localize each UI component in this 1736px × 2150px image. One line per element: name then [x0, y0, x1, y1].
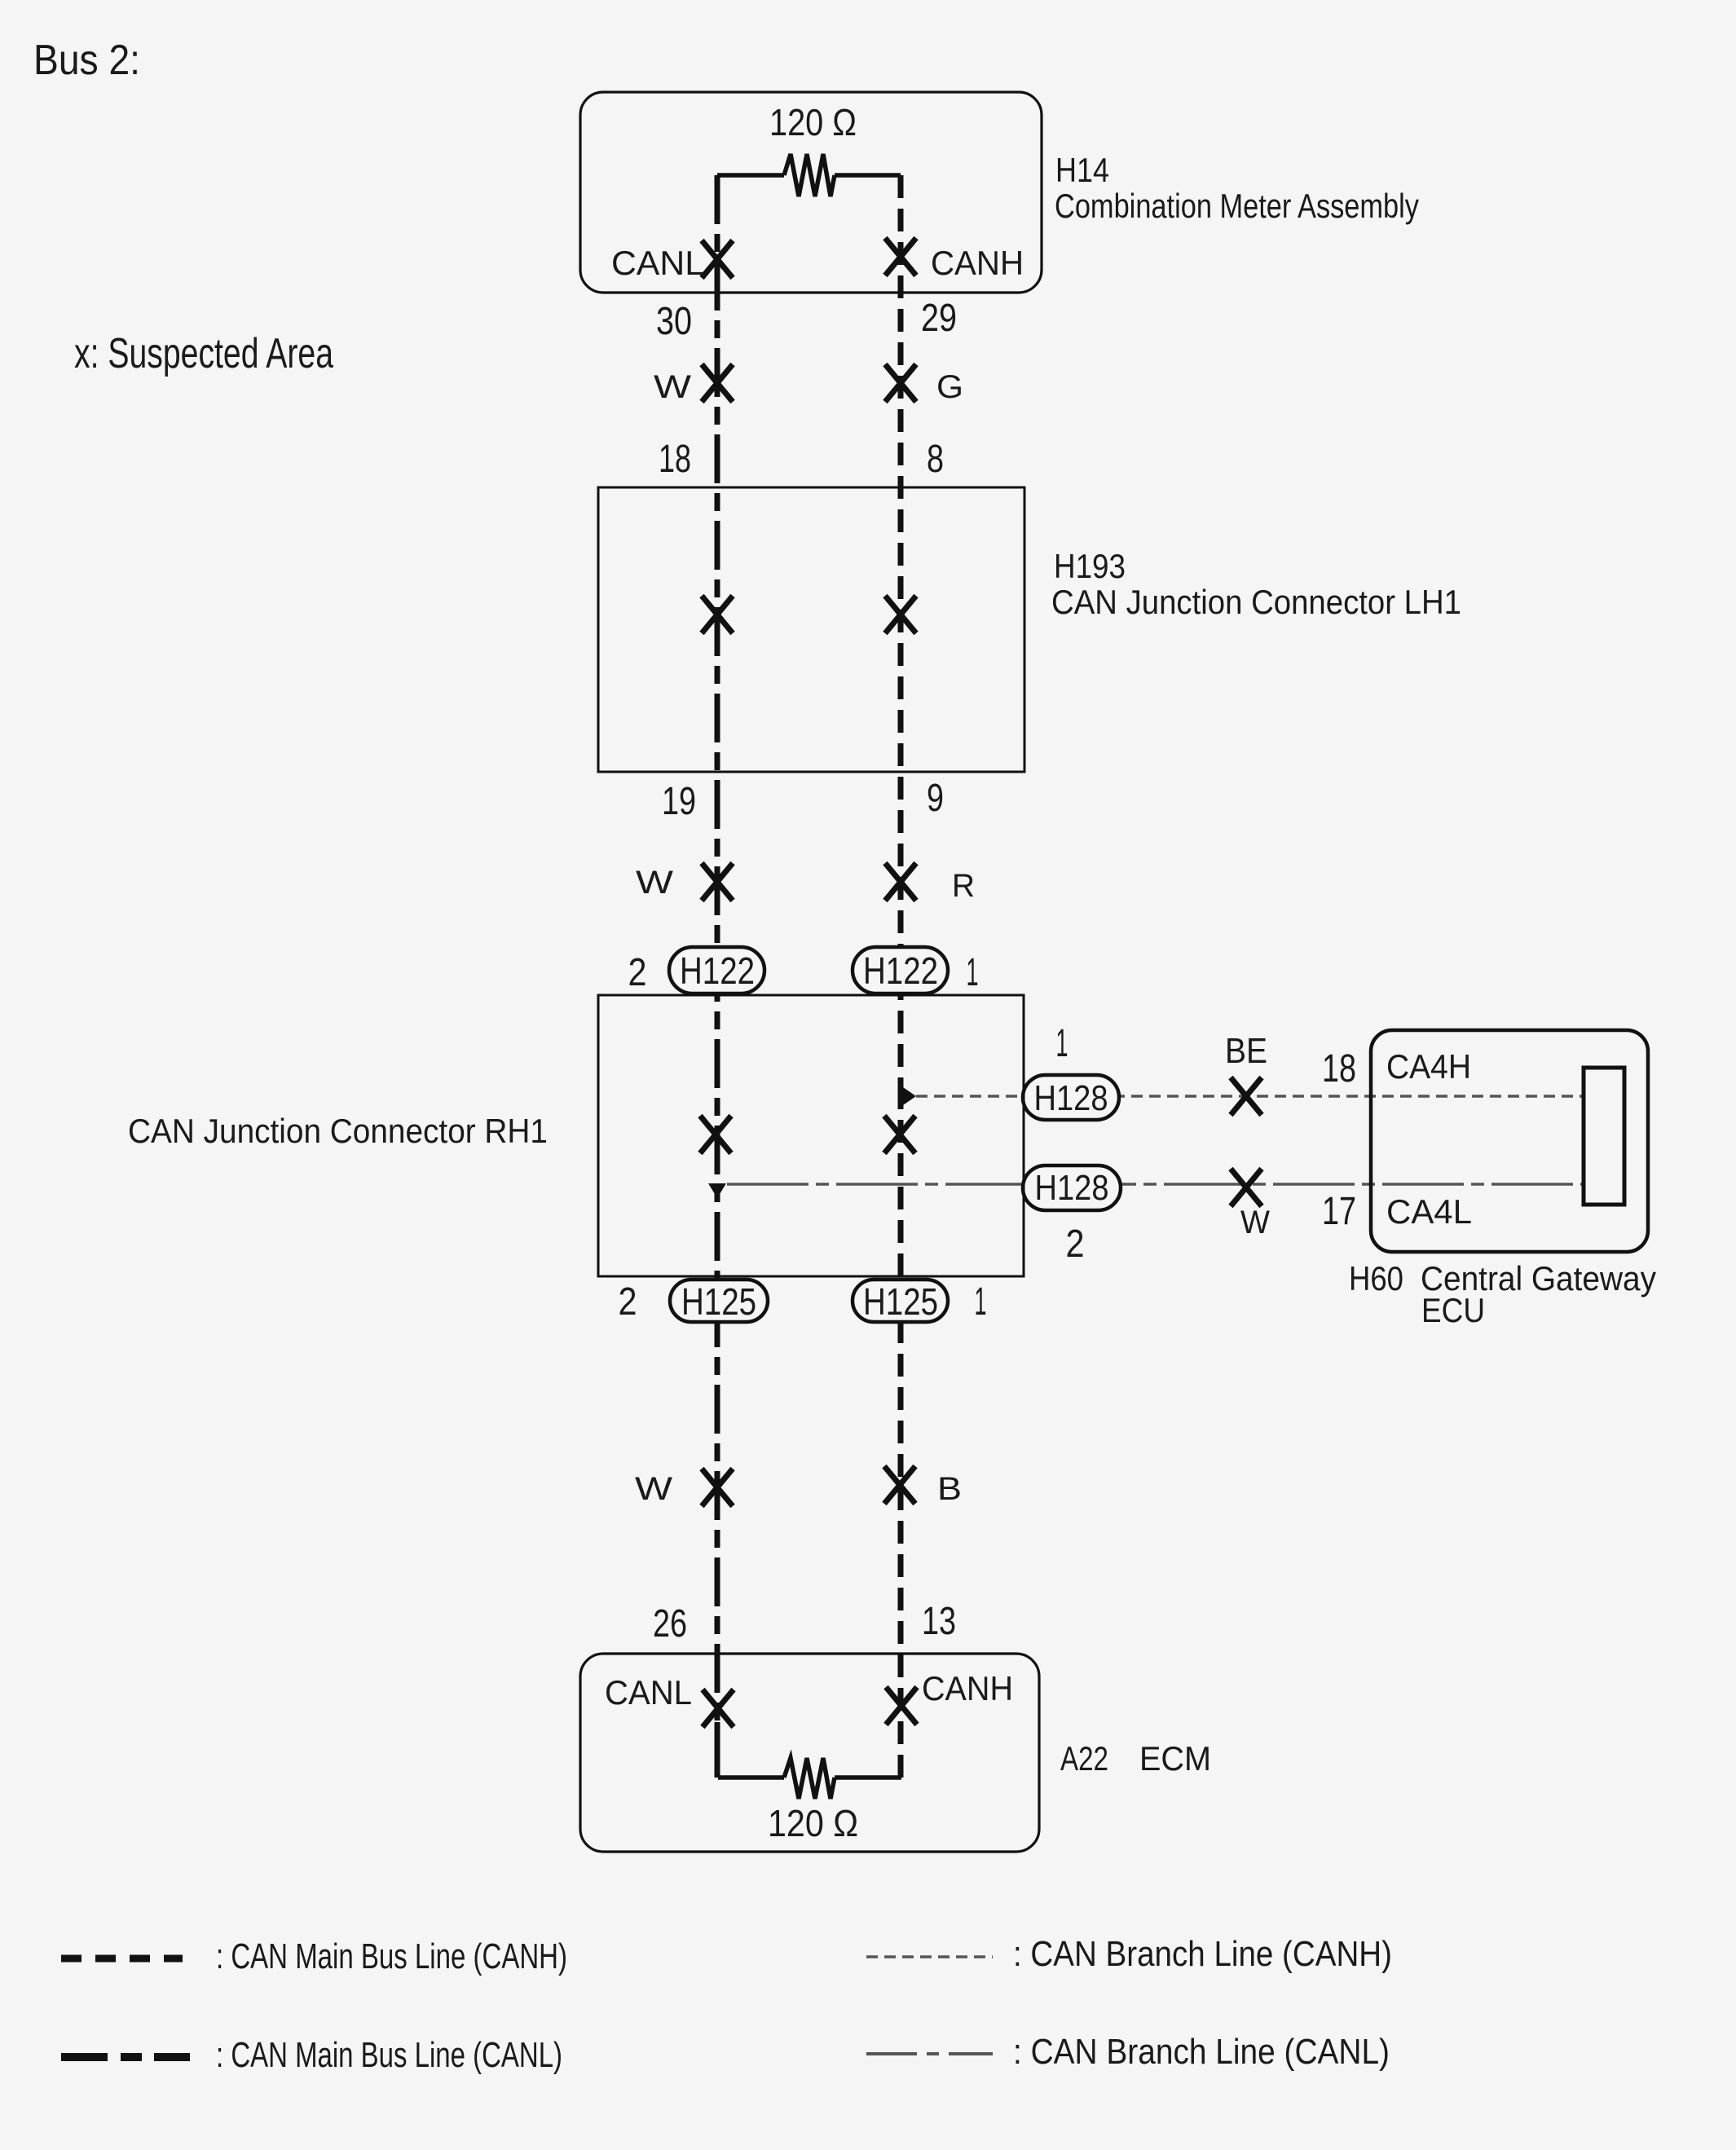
svg-text:9: 9 — [927, 777, 944, 820]
svg-text:29: 29 — [921, 297, 957, 340]
svg-text:2: 2 — [619, 1280, 637, 1324]
svg-text:30: 30 — [656, 300, 692, 343]
svg-text:H128: H128 — [1035, 1168, 1109, 1208]
svg-text:H125: H125 — [863, 1280, 938, 1323]
box A22 ECM — [580, 1654, 1039, 1852]
svg-text:ECM: ECM — [1139, 1739, 1211, 1778]
box H60 Central Gateway ECU — [1371, 1030, 1648, 1252]
wire CANL main bus vertical — [715, 175, 720, 1778]
svg-text:13: 13 — [922, 1600, 956, 1643]
resistor 120ohm bottom (in A22) — [718, 1758, 901, 1799]
svg-text:W: W — [654, 369, 691, 405]
connector oval H128 pin1 — [1023, 1075, 1119, 1120]
svg-text:H14: H14 — [1055, 151, 1109, 189]
x mark H14 CANL — [702, 240, 733, 278]
svg-text:H122: H122 — [863, 949, 938, 992]
svg-text:1: 1 — [1056, 1022, 1068, 1065]
node arrow CANL branch tap — [708, 1183, 726, 1198]
wire CANH main bus vertical — [898, 175, 904, 1096]
svg-text:120 Ω: 120 Ω — [768, 1802, 858, 1844]
legend sample CAN main bus CANL — [61, 2053, 190, 2061]
connector oval H128 pin2 — [1023, 1165, 1121, 1210]
svg-text:G: G — [936, 369, 963, 405]
svg-text:1: 1 — [975, 1280, 987, 1324]
svg-text:A22: A22 — [1060, 1739, 1108, 1778]
svg-text:: CAN Branch Line (CANH): : CAN Branch Line (CANH) — [1013, 1934, 1392, 1974]
svg-text:CANL: CANL — [605, 1673, 692, 1712]
svg-text:17: 17 — [1322, 1190, 1356, 1233]
connector oval H125 pin2 — [670, 1280, 768, 1322]
x mark branch W — [1231, 1169, 1262, 1206]
svg-text:CA4H: CA4H — [1386, 1047, 1471, 1086]
legend sample CAN branch CANL — [866, 2052, 993, 2055]
x mark H14 CANH — [885, 238, 916, 275]
box H193 CAN Junction Connector LH1 — [598, 487, 1024, 772]
svg-text:19: 19 — [662, 780, 696, 823]
node arrow CANH branch tap — [903, 1087, 916, 1105]
svg-text:H60: H60 — [1349, 1259, 1403, 1297]
svg-text:ECU: ECU — [1421, 1291, 1485, 1329]
svg-text:CANL: CANL — [611, 244, 704, 282]
svg-text:H125: H125 — [681, 1280, 756, 1323]
x mark A22 CANH — [886, 1687, 917, 1725]
svg-text:: CAN Main Bus Line (CANL): : CAN Main Bus Line (CANL) — [216, 2035, 562, 2075]
svg-text:CANH: CANH — [931, 244, 1024, 282]
svg-text:R: R — [952, 868, 975, 904]
svg-text:W: W — [635, 1471, 672, 1507]
x mark H193 CANL — [702, 596, 733, 633]
svg-text:1: 1 — [967, 951, 979, 994]
x mark wire W low — [702, 1469, 733, 1506]
connector bar inside H60 — [1584, 1068, 1624, 1205]
svg-text:W: W — [1240, 1205, 1270, 1240]
svg-text:Bus 2:: Bus 2: — [33, 37, 140, 84]
svg-text:CAN Junction Connector RH1: CAN Junction Connector RH1 — [128, 1112, 548, 1150]
box CAN Junction Connector RH1 — [598, 995, 1024, 1276]
svg-text:: CAN Main Bus Line (CANH): : CAN Main Bus Line (CANH) — [216, 1936, 567, 1976]
x mark H193 CANH — [885, 596, 916, 633]
x marks (suspected areas) — [700, 238, 1262, 1727]
x mark wire R — [885, 863, 916, 901]
svg-text:Combination Meter Assembly: Combination Meter Assembly — [1055, 187, 1419, 225]
svg-text:H122: H122 — [680, 949, 755, 992]
svg-text:H193: H193 — [1054, 547, 1126, 585]
wire CANH branch line (thin dashed) — [916, 1095, 1584, 1098]
x mark RH1 CANL — [700, 1116, 731, 1153]
x mark branch BE — [1231, 1077, 1262, 1115]
svg-text:B: B — [937, 1471, 962, 1507]
x mark wire G top — [885, 364, 916, 402]
x mark RH1 CANH — [884, 1116, 915, 1153]
svg-text:CAN Junction Connector LH1: CAN Junction Connector LH1 — [1051, 583, 1461, 621]
connector oval H125 pin1 — [853, 1280, 948, 1322]
svg-text:x: Suspected Area: x: Suspected Area — [74, 330, 333, 377]
svg-text:H128: H128 — [1034, 1078, 1108, 1118]
legend sample CAN main bus CANH — [61, 1955, 183, 1963]
svg-text:18: 18 — [1322, 1047, 1356, 1090]
svg-text:W: W — [636, 865, 673, 901]
wire CANL branch line (thin dash-dot) — [727, 1183, 1584, 1186]
x mark wire B — [884, 1466, 915, 1504]
connector oval H122 pin1 — [853, 947, 948, 993]
svg-text:18: 18 — [659, 438, 691, 481]
svg-text:8: 8 — [927, 438, 944, 481]
svg-text:26: 26 — [653, 1602, 687, 1646]
x mark A22 CANL — [703, 1690, 734, 1727]
svg-text:2: 2 — [628, 951, 647, 994]
svg-text:: CAN Branch Line (CANL): : CAN Branch Line (CANL) — [1013, 2032, 1390, 2072]
legend sample CAN branch CANH — [866, 1955, 993, 1958]
x mark wire W top — [702, 364, 733, 402]
svg-text:BE: BE — [1225, 1031, 1267, 1071]
x mark wire W mid — [702, 863, 733, 901]
resistor 120ohm top (in H14) — [717, 154, 901, 196]
svg-text:2: 2 — [1066, 1223, 1085, 1266]
connector oval H122 pin2 — [669, 947, 764, 993]
box H14 Combination Meter Assembly — [580, 92, 1042, 293]
svg-text:CANH: CANH — [922, 1669, 1013, 1707]
svg-text:120 Ω: 120 Ω — [769, 101, 857, 143]
svg-text:CA4L: CA4L — [1386, 1192, 1472, 1231]
